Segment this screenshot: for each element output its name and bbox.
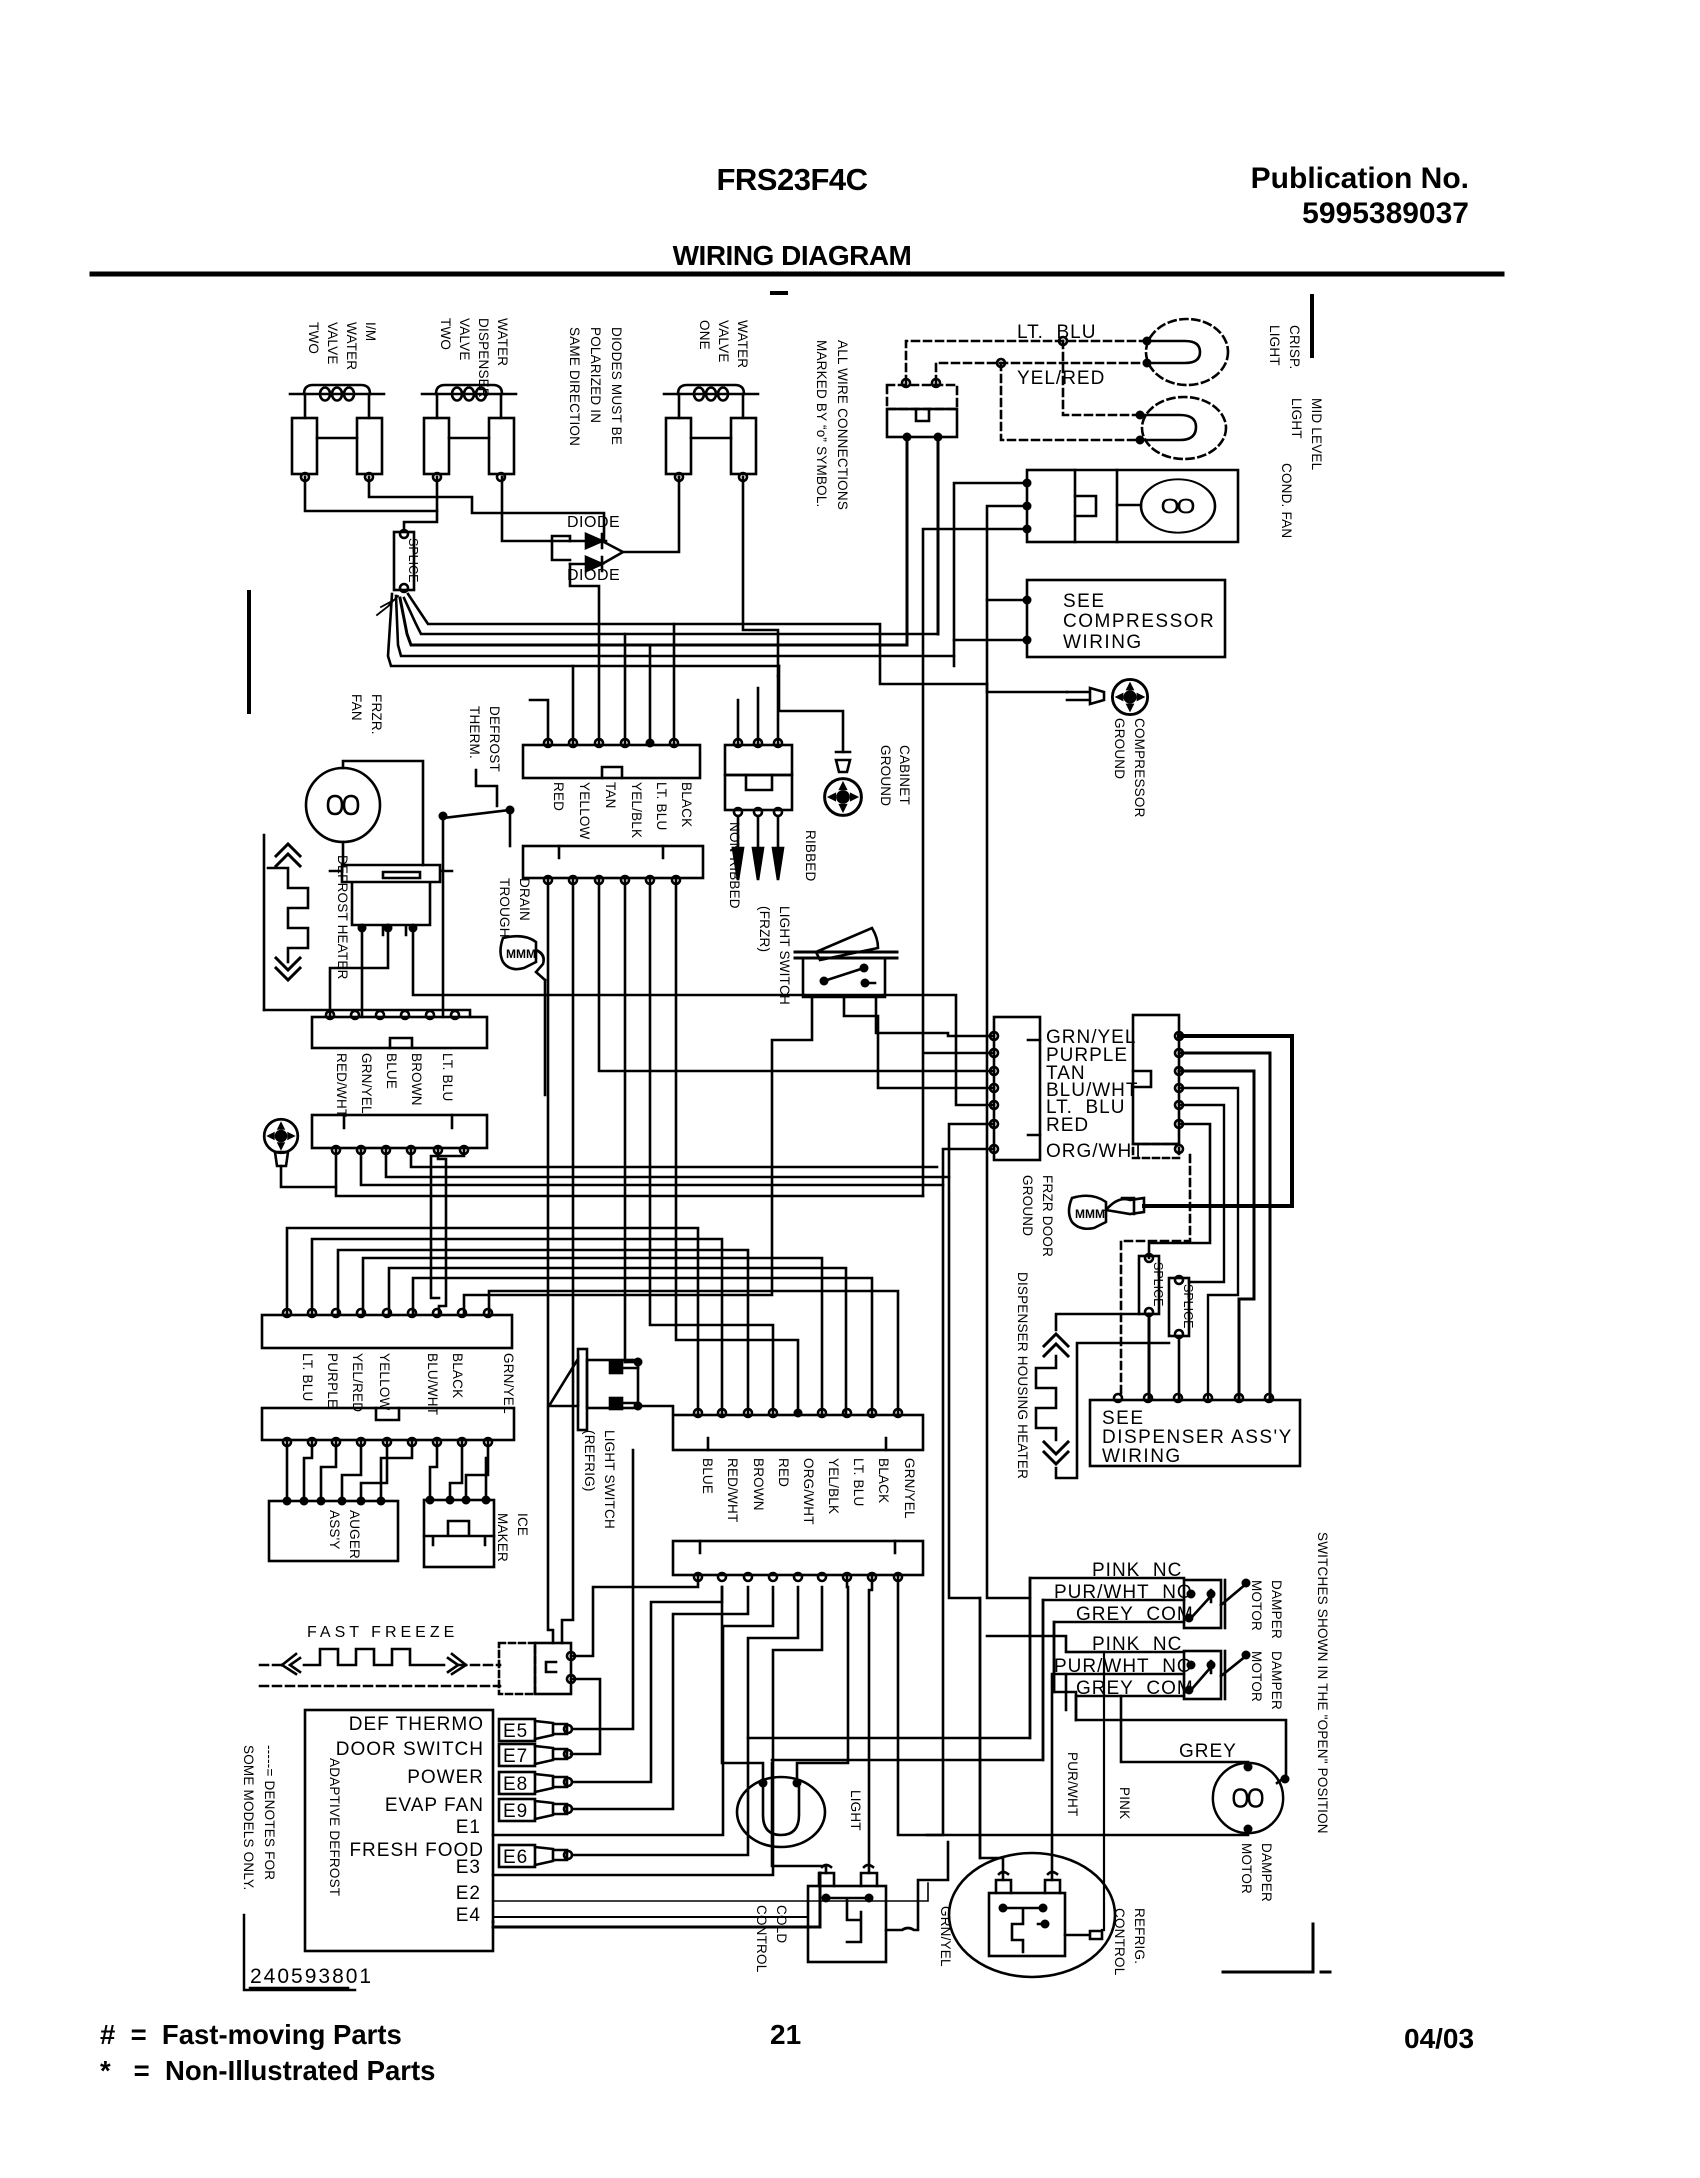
svg-text:WIRING: WIRING: [1063, 632, 1143, 653]
strip C notch: [390, 1038, 412, 1048]
heater assembly terminals: [358, 924, 367, 933]
wire heater t3 down: [413, 928, 994, 1105]
door connector right terminals: [1175, 1032, 1183, 1040]
right half dashed pigtail: [1133, 1144, 1179, 1158]
svg-text:DIODE: DIODE: [567, 514, 620, 531]
light bulb: [737, 1777, 825, 1847]
wire lsw refrig top: [625, 1361, 638, 1364]
door connector left terminals: [990, 1032, 998, 1040]
diode junction to valve3: [602, 477, 679, 564]
svg-text:YELLOW: YELLOW: [577, 782, 592, 840]
wire ff bottom to E7: [571, 1679, 600, 1754]
light filament: [763, 1783, 799, 1835]
border tick left: [247, 592, 251, 712]
svg-text:E1: E1: [456, 1817, 481, 1838]
strip D notch: [344, 1115, 452, 1128]
solenoid valve V3: [664, 385, 758, 481]
wire E6 right: [572, 1587, 798, 1855]
wire cold control right terminal up: [869, 1577, 872, 1873]
right half notch: [1133, 1071, 1151, 1087]
defrost thermostat switch: [443, 810, 510, 818]
cond fan motor: [1141, 479, 1215, 532]
svg-text:E5: E5: [503, 1721, 528, 1742]
svg-text:YEL/RED: YEL/RED: [350, 1353, 365, 1412]
set1 contacts: [1187, 1590, 1196, 1599]
wire pink down: [1066, 1652, 1104, 1930]
cond fan plug terminals: [1023, 479, 1032, 488]
wire E8 right: [572, 1587, 722, 1782]
svg-text:E6: E6: [503, 1847, 528, 1868]
svg-text:MMM: MMM: [1075, 1207, 1105, 1221]
fast freeze pulse train: [260, 1665, 500, 1686]
set1 switch box: [1184, 1580, 1221, 1628]
wire grn/yel stub: [886, 1842, 948, 1930]
border tick top center: [772, 291, 786, 295]
wire grey to damper motor: [1076, 1720, 1248, 1769]
solenoid valve V1: [290, 385, 384, 481]
svg-text:* = Non-Illustrated Parts: * = Non-Illustrated Parts: [100, 2055, 435, 2086]
crisp light filament: [1147, 341, 1200, 363]
svg-text:REFRIG.CONTROL: REFRIG.CONTROL: [1112, 1908, 1147, 1976]
svg-text:GRN/YEL: GRN/YEL: [501, 1353, 516, 1414]
svg-text:LIGHT SWITCH(FRZR): LIGHT SWITCH(FRZR): [757, 906, 792, 1005]
wire d4: [411, 1150, 937, 1167]
svg-text:SWITCHES SHOWN IN THE "OPEN" P: SWITCHES SHOWN IN THE "OPEN" POSITION: [1315, 1532, 1330, 1834]
svg-text:YEL/RED: YEL/RED: [1017, 368, 1105, 389]
ribbed feed wires up: [738, 676, 778, 743]
svg-text:BLACK: BLACK: [679, 782, 694, 827]
part number underline + corner: [244, 1915, 355, 1990]
svg-text:DIODE: DIODE: [567, 567, 620, 584]
svg-text:ALL WIRE CONNECTIONSMARKED BY: ALL WIRE CONNECTIONSMARKED BY “o” SYMBOL…: [814, 340, 850, 510]
compressor ground flower: [1112, 679, 1147, 714]
wire pur/wht down: [1052, 1674, 1066, 1880]
light switch frzr contacts: [820, 977, 829, 986]
splice SP1: [394, 530, 420, 592]
wire E3 staircase: [338, 1250, 748, 1413]
solenoid valve V2: [422, 385, 516, 481]
svg-text:I/MWATERVALVETWO: I/MWATERVALVETWO: [306, 322, 378, 370]
E9 tab: [499, 1799, 572, 1822]
door connector left notch: [1028, 1040, 1040, 1135]
LT. BLU dashed wire: [906, 341, 1147, 383]
cold control contacts: [822, 1894, 831, 1903]
svg-text:GREY: GREY: [1179, 1741, 1237, 1762]
svg-text:YEL/BLK: YEL/BLK: [629, 782, 644, 838]
svg-text:YELLOW: YELLOW: [377, 1353, 392, 1411]
cold control terminals: [819, 1865, 877, 1886]
wire light left: [722, 1587, 763, 1783]
damper switch set 2 labels: [1054, 1634, 1194, 1699]
svg-text:FRS23F4C: FRS23F4C: [716, 162, 867, 197]
dispenser box terminals: [1114, 1394, 1122, 1402]
wire E6 staircase: [413, 1278, 872, 1413]
svg-text:YEL/BLK: YEL/BLK: [826, 1458, 841, 1514]
svg-text:ORG/WHT: ORG/WHT: [801, 1458, 816, 1525]
refrig control body: [989, 1893, 1065, 1956]
DEFROST HEATER element zigzag: [264, 835, 308, 1010]
svg-text:RED: RED: [776, 1458, 791, 1487]
down arrows: [733, 816, 743, 880]
mid light terminals: [1136, 411, 1145, 420]
svg-text:DEFROSTTHERM.: DEFROSTTHERM.: [467, 706, 502, 772]
SEE DISPENSER ASSY WIRING box: [1090, 1400, 1300, 1466]
strip B notches: [559, 846, 663, 858]
set2 brackets: [1030, 1636, 1184, 1720]
frzr fan motor M1: [306, 768, 380, 842]
svg-text:FRZR.FAN: FRZR.FAN: [349, 694, 384, 735]
svg-text:COLDCONTROL: COLDCONTROL: [754, 1905, 789, 1973]
wire bundle b5: [388, 594, 779, 666]
damper bracket 3 drop: [1054, 1622, 1076, 1720]
strip E terminals: [283, 1309, 291, 1317]
svg-text:# = Fast-moving Parts: # = Fast-moving Parts: [100, 2019, 402, 2050]
svg-text:EVAP FAN: EVAP FAN: [385, 1795, 484, 1816]
wire E1 right: [493, 1587, 773, 1835]
wire to cabinet ground: [779, 666, 843, 752]
svg-text:RED/WHT: RED/WHT: [334, 1053, 349, 1117]
lsw refrig bar: [578, 1349, 587, 1430]
damper switch set 1 labels: [1054, 1560, 1194, 1625]
dispenser heater chevrons: [1044, 1334, 1068, 1356]
wire lt blu: [1179, 1105, 1224, 1282]
svg-text:DISPENSER ASS'Y: DISPENSER ASS'Y: [1102, 1427, 1293, 1448]
set2 contacts: [1187, 1661, 1196, 1670]
wire E2 right (thin long): [493, 1883, 928, 1901]
set1 flag: [1221, 1584, 1246, 1605]
svg-text:04/03: 04/03: [1404, 2023, 1474, 2054]
svg-text:AUGERASS'Y: AUGERASS'Y: [327, 1510, 362, 1559]
wire to compressor ground: [987, 684, 1067, 692]
compressor ground lug: [1067, 688, 1104, 704]
svg-text:ORG/WHT: ORG/WHT: [1046, 1141, 1145, 1162]
strip D connector: [312, 1115, 487, 1148]
fast freeze switch solid box: [535, 1643, 571, 1694]
svg-text:BLACK: BLACK: [876, 1458, 891, 1503]
dashed drop to mid light 1: [1063, 341, 1140, 415]
wire E5 staircase: [389, 1268, 846, 1413]
wire grn/yel heavy: [1144, 1036, 1292, 1206]
wire f4: [342, 1442, 361, 1501]
relay terminal dots bottom: [903, 433, 912, 442]
svg-text:DISPENSER HOUSING HEATER: DISPENSER HOUSING HEATER: [1015, 1272, 1030, 1479]
wire E9 staircase: [489, 1291, 898, 1413]
light switch frzr flag: [816, 928, 878, 960]
wire E3 right: [493, 1587, 822, 1875]
wire E9 right: [572, 1587, 748, 1809]
svg-text:RED/WHT: RED/WHT: [725, 1458, 740, 1522]
strip B terminals: [544, 876, 552, 884]
wire splice3 to dispenser: [1178, 1336, 1181, 1398]
trunk column T3: [599, 880, 994, 1071]
svg-text:E3: E3: [456, 1857, 481, 1878]
lsw refrig contacts: [610, 1362, 622, 1373]
diode D1: [570, 534, 602, 548]
strip E connector: [262, 1315, 512, 1348]
svg-text:COMPRESSOR: COMPRESSOR: [1063, 611, 1215, 632]
door connector right half: [1133, 1015, 1179, 1144]
svg-text:GRN/YEL: GRN/YEL: [359, 1053, 374, 1114]
svg-text:-----= DENOTES FORSOME MODELS: -----= DENOTES FORSOME MODELS ONLY.: [241, 1745, 277, 1890]
svg-text:PUR/WHT: PUR/WHT: [1065, 1752, 1080, 1816]
wire therm right contact down: [509, 810, 512, 846]
door connector left half: [994, 1017, 1040, 1160]
svg-text:BLU/WHT: BLU/WHT: [425, 1353, 440, 1415]
svg-text:Publication No.: Publication No.: [1251, 162, 1469, 195]
refrig terminals: [996, 1872, 1060, 1893]
strip C connector: [312, 1017, 487, 1048]
ribbed terminals top: [734, 739, 742, 747]
svg-text:NON-RIBBED: NON-RIBBED: [727, 822, 742, 909]
svg-text:BROWN: BROWN: [751, 1458, 766, 1511]
wire lsw refrig bottom: [638, 1406, 673, 1413]
pulse square wave: [304, 1649, 444, 1665]
defrost heater chevron top: [276, 844, 300, 866]
svg-text:21: 21: [770, 2019, 801, 2050]
compressor relay box: [887, 409, 957, 437]
svg-text:BLUE: BLUE: [384, 1053, 399, 1089]
strip F terminals: [283, 1438, 291, 1446]
svg-text:TAN: TAN: [603, 782, 618, 809]
wire purple: [1179, 1053, 1270, 1400]
svg-text:E7: E7: [503, 1746, 528, 1767]
wire v2 right dot down to diode: [502, 477, 570, 541]
wire lsw frzr a: [464, 997, 812, 1313]
svg-text:WIRING: WIRING: [1102, 1446, 1182, 1467]
trunk column T1: [548, 880, 553, 1643]
wire bundle b2: [404, 598, 938, 634]
wire heater loop left: [264, 1010, 470, 1017]
wire tan: [1179, 1071, 1254, 1398]
wire heater bottom loop: [1056, 1343, 1169, 1478]
svg-text:BLACK: BLACK: [450, 1353, 465, 1398]
wire drain trough: [544, 980, 547, 1095]
wire blu/wht: [1179, 1088, 1238, 1398]
damper bracket 1 drop: [748, 1578, 1030, 1738]
defrost thermostat lead: [476, 770, 497, 806]
wire v2 left dot down to splice top: [404, 477, 437, 530]
PAGE-HEADER: [673, 162, 1469, 271]
svg-text:GRN/YEL: GRN/YEL: [902, 1458, 917, 1519]
svg-text:SEE: SEE: [1102, 1408, 1145, 1429]
lsw refrig flag: [549, 1359, 578, 1406]
svg-text:SEE: SEE: [1063, 591, 1106, 612]
strip G2 notch: [700, 1541, 895, 1553]
svg-text:DRAINTROUGH: DRAINTROUGH: [497, 878, 532, 938]
light switch frzr body: [803, 958, 885, 997]
refrig contacts: [999, 1904, 1008, 1913]
damper set2 pink feed: [987, 1635, 1030, 1638]
relay drop wires: [907, 437, 938, 645]
wire f2: [304, 1442, 312, 1501]
wire fan loop top: [343, 761, 423, 865]
strip C terminals: [326, 1011, 334, 1019]
strip D terminals: [332, 1146, 340, 1154]
ice maker inner: [424, 1521, 494, 1545]
node on YEL/RED: [997, 359, 1005, 367]
wire v1 terminals to splice: [305, 477, 606, 541]
cabinet ground flower: [825, 779, 862, 816]
frzr door ground blob: [1069, 1196, 1106, 1229]
wire E4 staircase: [363, 1258, 822, 1413]
ICE MAKER box: [424, 1500, 494, 1567]
ice maker terminals: [426, 1496, 435, 1505]
AUGER ASSY box: [269, 1501, 398, 1561]
right long column R3 (org/wht row): [927, 1149, 994, 1835]
svg-text:LT. BLU: LT. BLU: [440, 1053, 455, 1101]
wire fan bottom: [342, 842, 345, 865]
svg-text:COMPRESSORGROUND: COMPRESSORGROUND: [1112, 718, 1147, 818]
wire bundle b4: [396, 596, 954, 666]
defrost heater assembly body: [330, 865, 452, 935]
wire E1 staircase: [287, 1228, 698, 1413]
wire compressor t2: [954, 639, 1027, 642]
YEL/RED dashed wire: [936, 363, 1147, 383]
wire compressor t1: [987, 600, 1027, 684]
wire splice2 to dispenser: [1148, 1314, 1151, 1398]
wire bundle b3: [400, 598, 907, 645]
E8 tab: [499, 1772, 572, 1795]
wire lsw frzr c: [876, 997, 994, 1036]
cond fan housing: [1117, 470, 1238, 542]
svg-text:WIRING DIAGRAM: WIRING DIAGRAM: [673, 240, 912, 271]
see compressor wiring box: [1027, 580, 1225, 657]
svg-text:240593801: 240593801: [250, 1965, 373, 1988]
wire d3: [386, 1150, 949, 1177]
set2 flag: [1221, 1656, 1246, 1676]
strip F connector: [262, 1408, 514, 1440]
wire therm left contact down: [442, 816, 445, 1017]
refrig right stub: [1065, 1931, 1102, 1939]
mid light filament: [1140, 415, 1196, 440]
fast freeze terminals: [567, 1652, 575, 1660]
svg-text:E4: E4: [456, 1905, 481, 1926]
wire d5: [438, 1150, 446, 1313]
wire org/wht dashed: [1121, 1155, 1190, 1398]
wire f5: [361, 1442, 387, 1501]
ice ground lug: [275, 1152, 288, 1166]
svg-text:E9: E9: [503, 1801, 528, 1822]
svg-text:RIBBED: RIBBED: [803, 830, 818, 882]
wire light right: [797, 1577, 848, 1783]
defrost heater chevron bottom: [276, 958, 300, 980]
auger terminals: [283, 1497, 292, 1506]
wire red: [1149, 1124, 1210, 1258]
diode D2: [570, 557, 602, 571]
relay top notch: [916, 409, 929, 421]
svg-text:DIODES MUST BEPOLARIZED INSAME: DIODES MUST BEPOLARIZED INSAME DIRECTION: [567, 327, 624, 446]
svg-text:E8: E8: [503, 1774, 528, 1795]
strip F notch: [376, 1408, 399, 1420]
crisp light terminals: [1143, 337, 1152, 346]
svg-text:POWER: POWER: [407, 1767, 484, 1788]
strip A terminals: [544, 739, 552, 747]
wire d1: [336, 1150, 923, 1196]
strip G1 notches: [708, 1438, 886, 1450]
wire ice ground down: [281, 1166, 336, 1187]
SPLICE SP3: [1169, 1276, 1195, 1338]
crisp light bulb: [1146, 319, 1228, 385]
relay terminal dots top: [902, 379, 910, 387]
ice maker ground flower: [264, 1119, 298, 1153]
svg-text:E2: E2: [456, 1883, 481, 1904]
wires into cond fan plug: [923, 483, 1027, 1196]
svg-text:FAST FREEZE: FAST FREEZE: [307, 1624, 458, 1641]
trunk column T6: [676, 880, 798, 1413]
wire refrig left terminal: [980, 1598, 1003, 1880]
dashed drop to mid light 2: [1001, 363, 1140, 440]
strip G1 terminals: [694, 1409, 702, 1417]
mid level light bulb: [1142, 397, 1226, 459]
wire f1: [286, 1442, 289, 1501]
svg-text:WATERVALVEONE: WATERVALVEONE: [697, 320, 750, 368]
svg-text:DAMPERMOTOR: DAMPERMOTOR: [1239, 1843, 1274, 1902]
svg-text:BLUE: BLUE: [700, 1458, 715, 1494]
E6 tab: [499, 1845, 572, 1868]
strip A feed wires up: [530, 624, 674, 743]
drain trough tail: [536, 950, 545, 980]
drain trough heater blob: [501, 936, 537, 969]
ribbed terminals bottom: [734, 808, 742, 816]
pulse arrows: [282, 1654, 300, 1674]
relay dashed housing: [887, 385, 957, 409]
wire f6: [381, 1442, 412, 1501]
svg-text:CABINETGROUND: CABINETGROUND: [878, 745, 912, 806]
svg-text:MMM: MMM: [506, 947, 536, 961]
wire E5 right: [572, 1450, 633, 1729]
wire E2 staircase: [312, 1239, 722, 1413]
bottom right border bracket: [1223, 1924, 1330, 1972]
svg-text:GRN/YEL: GRN/YEL: [938, 1906, 953, 1967]
wire f9: [466, 1442, 488, 1498]
svg-text:DAMPERMOTOR: DAMPERMOTOR: [1249, 1580, 1284, 1639]
wire heater t2 down: [330, 928, 388, 1017]
wire diode input upper loop: [552, 536, 599, 743]
E5 tab: [499, 1719, 572, 1742]
svg-text:BROWN: BROWN: [409, 1053, 424, 1106]
row labels: [336, 1714, 484, 1926]
svg-text:DOOR SWITCH: DOOR SWITCH: [336, 1739, 484, 1760]
svg-text:LT. BLU: LT. BLU: [300, 1353, 315, 1401]
wire heater top to splice2: [1056, 1314, 1139, 1330]
wire f8: [450, 1442, 462, 1498]
wire valve3 right dot down: [679, 477, 778, 676]
wire d2: [361, 1150, 943, 1185]
title rule: [92, 272, 1502, 277]
wire ff top to G2: [571, 1577, 698, 1656]
dispenser heater zigzag: [1036, 1356, 1056, 1440]
svg-text:LIGHT: LIGHT: [848, 1790, 863, 1831]
svg-text:DAMPERMOTOR: DAMPERMOTOR: [1249, 1651, 1284, 1710]
svg-text:CRISP.LIGHT: CRISP.LIGHT: [1267, 325, 1302, 369]
damper bracket 2 drop: [772, 1600, 1043, 1760]
wire damper motor bottom: [898, 1577, 1248, 1835]
fast freeze switch dashed box: [499, 1643, 535, 1694]
wire cold control left terminal up: [772, 1763, 826, 1873]
wire bundle arrowhead marks at splice: [377, 596, 398, 615]
strip A notch: [602, 767, 622, 778]
svg-text:FRZR DOORGROUND: FRZR DOORGROUND: [1020, 1175, 1055, 1257]
lsw refrig body: [587, 1360, 638, 1408]
svg-text:RED: RED: [551, 782, 566, 811]
frzr door ground tail: [1106, 1198, 1144, 1214]
wire f7: [430, 1442, 437, 1498]
svg-text:DEF THERMO: DEF THERMO: [349, 1714, 484, 1735]
set2 switch box: [1184, 1651, 1221, 1699]
wire E4 right: [493, 1873, 820, 1927]
svg-text:ADAPTIVE DEFROST: ADAPTIVE DEFROST: [327, 1758, 342, 1896]
wire damper motor right: [1121, 1696, 1286, 1783]
